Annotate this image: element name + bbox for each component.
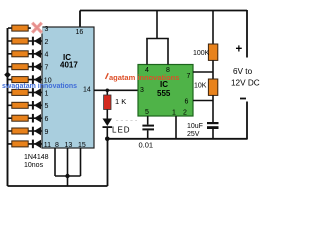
wire left bus	[7, 28, 9, 186]
wire 555 pin6	[193, 100, 213, 102]
wire 555 supply riser	[156, 11, 158, 39]
row pin 9	[8, 127, 49, 136]
svg-text:25V: 25V	[187, 131, 200, 138]
svg-text:6V to: 6V to	[233, 67, 253, 76]
row pin 3	[8, 22, 49, 34]
svg-text:1N4148: 1N4148	[24, 154, 49, 161]
node diamond on bus	[4, 72, 11, 79]
node junction dot	[65, 174, 69, 178]
watermark red agatam innovations	[106, 73, 109, 79]
svg-text:4: 4	[45, 52, 49, 59]
wire 1K to LED	[106, 110, 108, 119]
wire LED to ground	[106, 128, 108, 139]
wire 555 pin7	[193, 71, 213, 73]
node ground junction	[105, 137, 110, 142]
svg-text:swagatam innovations: swagatam innovations	[2, 83, 77, 90]
wire 555 pin4 up	[146, 39, 148, 65]
row pin 2	[8, 37, 49, 46]
resistor R2 100K	[212, 11, 214, 45]
wire pin13 drop	[67, 148, 69, 186]
wire pin4-pin8 tie	[146, 38, 169, 40]
svg-text:+: +	[236, 44, 243, 56]
row pin 5	[8, 101, 49, 110]
svg-text:10nos: 10nos	[24, 162, 44, 169]
wire pin15 drop	[80, 148, 82, 176]
svg-text:10K: 10K	[194, 83, 207, 90]
row pin 10	[8, 75, 52, 84]
wire right edge lower	[246, 102, 248, 140]
svg-text:11: 11	[44, 142, 51, 149]
svg-text:2: 2	[45, 39, 49, 46]
svg-text:5: 5	[145, 109, 149, 116]
wire pin8 drop	[54, 148, 56, 176]
wire ground rail	[107, 138, 247, 140]
svg-text:7: 7	[45, 65, 49, 72]
wire 555 pin1 ground	[175, 116, 177, 139]
node junction	[106, 89, 110, 93]
svg-text:2: 2	[183, 110, 187, 117]
svg-text:6: 6	[185, 99, 189, 106]
svg-text:12V DC: 12V DC	[231, 79, 260, 88]
capacitor C2 10uF 25V	[207, 122, 219, 124]
row pin 1	[8, 88, 49, 97]
svg-text:16: 16	[76, 29, 84, 36]
capacitor C1 0.01	[147, 116, 149, 125]
svg-text:555: 555	[157, 89, 171, 98]
svg-text:100K: 100K	[193, 50, 210, 57]
svg-text:9: 9	[45, 129, 49, 136]
wire 555 pin8 up	[167, 39, 169, 65]
battery - terminal	[240, 98, 246, 100]
svg-text:10uF: 10uF	[187, 123, 203, 130]
svg-text:3: 3	[45, 26, 49, 33]
resistor R3 10K	[208, 79, 217, 95]
svg-text:agatam innovations: agatam innovations	[109, 73, 179, 82]
svg-text:1: 1	[172, 110, 176, 117]
wire ground riser	[107, 139, 109, 186]
svg-text:1: 1	[45, 90, 49, 97]
svg-text:5: 5	[45, 103, 49, 110]
svg-text:14: 14	[83, 87, 91, 94]
svg-text:4017: 4017	[60, 61, 78, 70]
svg-text:7: 7	[187, 73, 191, 80]
wire top rail V+	[80, 10, 247, 12]
wire 555 out to 4017 clock pin14	[94, 89, 138, 91]
svg-text:13: 13	[65, 142, 73, 149]
LED D11	[103, 119, 113, 127]
svg-text:8: 8	[55, 142, 59, 149]
row pin 7	[8, 62, 49, 71]
wire bottom ground	[8, 185, 108, 187]
wire right edge upper	[246, 10, 248, 58]
svg-text:6: 6	[45, 116, 49, 123]
svg-text:0.01: 0.01	[139, 141, 154, 150]
svg-text:1 K: 1 K	[115, 97, 126, 106]
row pin 11	[8, 140, 51, 149]
svg-text:3: 3	[140, 87, 144, 94]
svg-text:LED: LED	[112, 126, 131, 135]
IC U2 555 body	[138, 65, 193, 117]
diode D1 (pink watermark X)	[31, 22, 43, 34]
svg-text:15: 15	[78, 142, 86, 149]
wire pins 8-15 tie	[55, 175, 81, 177]
row pin 6	[8, 114, 49, 123]
row pin 4	[8, 50, 49, 59]
wire pin16 drop	[79, 11, 81, 28]
IC U1 4017 body	[42, 27, 94, 148]
resistor R1 1K	[106, 90, 108, 95]
